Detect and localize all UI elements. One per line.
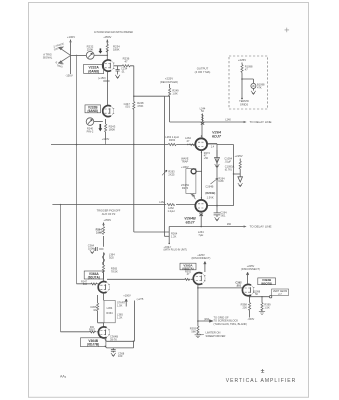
- svg-text:(6AN8): (6AN8): [88, 109, 98, 113]
- svg-text:1.5VK: 1.5VK: [207, 195, 214, 199]
- tube designator V393A (boxed): [180, 263, 196, 270]
- resistor column left of box: [98, 295, 104, 323]
- resistor on pickoff column: [102, 227, 104, 235]
- svg-text:(DISCONNECT): (DISCONNECT): [241, 267, 260, 271]
- node plug-in stub end: [168, 243, 170, 245]
- svg-text:2X25: 2X25: [168, 173, 175, 177]
- wire x=133.8 corner into y=232 row: [134, 231, 169, 233]
- svg-text:56K: 56K: [191, 329, 196, 333]
- node cathode/grid-row junction: [197, 287, 199, 289]
- svg-text:1K: 1K: [93, 308, 96, 312]
- wire V232A plate pin to coupling column: [114, 65, 134, 67]
- node x=217 junction: [216, 205, 218, 207]
- svg-text:47K: 47K: [257, 86, 262, 90]
- wire +225V(dcpl) column: [169, 84, 171, 122]
- resistor grid stopper V393A: [185, 279, 190, 281]
- svg-text:1.2µH: 1.2µH: [168, 209, 175, 213]
- tube V232A envelope (bold arc, open right): [103, 60, 111, 71]
- part symbol above title: [261, 369, 264, 372]
- svg-text:(+275: (+275: [137, 297, 144, 301]
- svg-text:.001: .001: [236, 283, 242, 287]
- wire left bus2 x=60.5 down: [60, 205, 62, 332]
- svg-text:-150V: -150V: [247, 317, 254, 321]
- wire V232A cathode down to triode: [107, 72, 109, 106]
- +100V arrow stub: [125, 299, 127, 307]
- wire pot R240 to cathode chain: [94, 121, 103, 123]
- svg-text:1.8K: 1.8K: [172, 91, 178, 95]
- tube designator V364B (boxed): [81, 338, 106, 347]
- node plate junction: [107, 55, 108, 56]
- node H2/left bus2 junction: [60, 204, 61, 205]
- resistor on stub: [261, 303, 263, 311]
- tube V264A pin ticks: [201, 135, 208, 153]
- svg-text:L240: L240: [225, 118, 231, 121]
- potentiometer R232 wiper arrow: [88, 53, 92, 57]
- svg-text:1.2K: 1.2K: [171, 234, 177, 238]
- svg-text:(DISCONNECT): (DISCONNECT): [192, 256, 211, 260]
- potentiometer R240 circle: [86, 118, 94, 126]
- tube V364A envelope (bold arc, open right): [98, 282, 106, 293]
- svg-text:(294: (294: [204, 318, 210, 321]
- svg-text:LIMITER ON: LIMITER ON: [206, 330, 221, 334]
- svg-text:1.5K: 1.5K: [264, 305, 270, 309]
- wire V264A plate pin (bold then thin): [207, 143, 217, 145]
- svg-text:.01µF: .01µF: [224, 160, 231, 164]
- cathode marks below V264B: [199, 214, 203, 216]
- svg-text:(0.7K): (0.7K): [225, 168, 232, 172]
- tube V264B envelope (bold circle): [195, 200, 207, 212]
- tube designator V232A (boxed): [84, 64, 104, 73]
- wire +225V column in dashed box: [241, 63, 243, 99]
- capacitor C364 stub (left): [93, 247, 103, 251]
- tube V264A envelope (bold circle): [195, 138, 207, 150]
- svg-text:.001: .001: [125, 105, 131, 109]
- wire trigger-pickoff plate column x=103.5: [103, 223, 105, 282]
- wire V393B cathode row y=296.7: [249, 296, 251, 318]
- svg-text:.01: .01: [121, 69, 125, 73]
- node H1/left-bus junction: [76, 144, 78, 146]
- wire jog H-mid end up to resistor: [164, 95, 169, 97]
- inductor L364 on column: [102, 253, 104, 266]
- wire V264B plate pin row: [207, 205, 233, 207]
- wire V364A-to-V393A coupling row y=279.3: [107, 278, 193, 280]
- node H-mid junction: [133, 96, 134, 97]
- svg-text:-150V: -150V: [65, 74, 73, 78]
- wire V364A cathode to network box: [103, 293, 105, 301]
- neon lamp B1098: [251, 83, 256, 88]
- svg-text:250K: 250K: [87, 47, 94, 51]
- wire main coupling bus x=133.8: [133, 66, 135, 232]
- capacitor stub x=262: [261, 297, 263, 312]
- svg-text:470K: 470K: [137, 104, 143, 108]
- wire cathode resistor column: [105, 119, 107, 140]
- adjust slash across cathode chain: [211, 178, 218, 184]
- wire cathode jog: [103, 80, 109, 82]
- wire H2 grid line y=204.6: [52, 204, 195, 206]
- ground under C264: [215, 217, 220, 221]
- ground left of C364: [90, 250, 95, 254]
- tube V264A grid dashes: [198, 142, 204, 146]
- terminal circle at geometry box: [269, 296, 271, 298]
- svg-text:100K: 100K: [88, 246, 94, 250]
- resistor R262 (horizontal on H2): [167, 204, 175, 206]
- node terminal dot bottom of box column: [241, 98, 243, 100]
- svg-text:SWEEP DRIVER: SWEEP DRIVER: [206, 334, 226, 338]
- svg-text:L364: L364: [107, 306, 113, 310]
- potentiometer R232 circle: [86, 51, 94, 59]
- geometry adj box: [272, 289, 289, 295]
- potentiometer R240 wiper arrow: [88, 119, 92, 123]
- resistor R236 (horizontal, plate out): [122, 65, 130, 67]
- svg-text:3Ω5: 3Ω5: [109, 255, 114, 259]
- tube designator V364A (boxed): [84, 271, 103, 279]
- beam-indicator bold arrow down: [99, 48, 101, 51]
- resistor R1098 in box: [241, 65, 243, 73]
- wire V393B grid row y=287.9: [198, 287, 243, 289]
- svg-text:1.5K: 1.5K: [117, 303, 123, 307]
- svg-text:(6DJ7A): (6DJ7A): [88, 275, 100, 279]
- ground under stub: [259, 312, 265, 315]
- node loop top-right: [133, 341, 135, 343]
- svg-text:+100V: +100V: [67, 35, 75, 39]
- wire x=164.4 bus (interstage divider): [163, 96, 165, 236]
- registration cross mark: [285, 28, 290, 33]
- wire right vertical x=233.5: [233, 145, 235, 206]
- resistor R398 on cathode: [249, 303, 251, 311]
- svg-text:(6BQ7B): (6BQ7B): [261, 281, 272, 285]
- wire V393A cathode bus down: [197, 284, 199, 334]
- wire H-mid to +225V dropper: [134, 95, 165, 97]
- node limiter junction: [197, 320, 199, 322]
- svg-text:AUX OF P2: AUX OF P2: [102, 212, 116, 216]
- tube V364B envelope (bold arc, open right): [98, 327, 106, 338]
- wire +100V tail into H1: [105, 140, 107, 144]
- arrowhead to delay line (lower): [244, 225, 247, 227]
- resistor R?? on +225V stub: [239, 161, 241, 169]
- svg-text:GRIDS: GRIDS: [240, 102, 248, 106]
- variable slash on x=164 bus: [162, 170, 167, 175]
- peaking coil L244 stub above row: [201, 114, 203, 122]
- resistor R393 cathode: [197, 326, 199, 334]
- svg-text:(WITH PLUG-IN UNIT): (WITH PLUG-IN UNIT): [164, 250, 188, 252]
- resistor R263 (horizontal on H1): [168, 143, 176, 145]
- svg-text:200: 200: [242, 305, 247, 309]
- tube V232B envelope (bold arc, open right): [103, 106, 111, 117]
- svg-text:(R264B): (R264B): [205, 191, 215, 195]
- svg-text:+350V: +350V: [104, 218, 112, 222]
- svg-text:TRAP: TRAP: [181, 160, 188, 164]
- capacitor C264 at pin junction: [214, 206, 221, 217]
- svg-text:ACTUATED WHEN GAIN SWITCH PRES: ACTUATED WHEN GAIN SWITCH PRESSED: [94, 30, 133, 34]
- svg-text:+100V: +100V: [123, 294, 131, 298]
- node plate row junction marks: [201, 122, 204, 124]
- svg-text:TO DELAY LINE: TO DELAY LINE: [250, 120, 272, 124]
- svg-text:900: 900: [83, 283, 88, 286]
- svg-text:R364: R364: [106, 311, 113, 315]
- tube V393A grid dashes: [196, 276, 202, 280]
- svg-text:SIGNAL: SIGNAL: [43, 55, 53, 59]
- tube designator V232B (boxed): [85, 105, 101, 113]
- ground under C1094: [215, 164, 220, 168]
- arrowhead to delay line (upper): [244, 121, 247, 123]
- svg-text:.001: .001: [220, 213, 226, 217]
- ground below C234: [115, 75, 120, 79]
- cathode network box: [104, 300, 115, 322]
- node H1/coupling bus junction: [133, 144, 134, 145]
- svg-text:100: 100: [118, 354, 123, 358]
- wire output loop rows: [105, 339, 134, 348]
- tube V393B envelope (bold arc, open right): [242, 284, 251, 295]
- tube V393A envelope (bold arc, open right): [193, 273, 202, 285]
- node tie junction: [233, 173, 234, 174]
- svg-text:TO DELAY LINE: TO DELAY LINE: [250, 225, 272, 229]
- svg-text:(4 OR 7 MA): (4 OR 7 MA): [195, 70, 211, 74]
- wave trap box: [186, 169, 196, 194]
- node in-box junction: [241, 78, 243, 80]
- svg-text:900: 900: [90, 326, 95, 329]
- svg-text:R263: R263: [169, 138, 176, 142]
- wire V364B grid entry from left bus2: [61, 331, 99, 333]
- wire +225V stub column: [239, 159, 241, 175]
- wire +350V plate feed: [106, 40, 108, 60]
- limiter callout squiggle: [200, 334, 204, 335]
- tube V364B grid dashes: [100, 330, 106, 334]
- tube V393B grid dashes: [245, 288, 251, 292]
- svg-text:PIN-2: PIN-2: [87, 129, 94, 133]
- resistor R265 (wave box to tube): [191, 194, 196, 200]
- svg-text:(6DJ7B): (6DJ7B): [87, 343, 99, 347]
- tube V232A grid dashes: [105, 64, 111, 68]
- svg-text:+50: +50: [204, 157, 209, 160]
- resistor grid stopper V364A: [91, 283, 98, 285]
- wire plate riser into V264A: [201, 122, 203, 138]
- resistor R243 (cathode): [105, 124, 107, 132]
- svg-text:C264B: C264B: [205, 184, 213, 188]
- wire input arrow upper (A TRIG): [59, 47, 70, 55]
- wire interstage vertical x=217: [216, 144, 218, 206]
- wire right feed x=134.6 down to output loop: [134, 301, 136, 342]
- wire V364B plate riser: [103, 323, 105, 327]
- svg-text:(THRU GAIN, TRIG, BLANK): (THRU GAIN, TRIG, BLANK): [214, 322, 248, 326]
- tube V232B grid dashes: [104, 109, 110, 113]
- svg-text:6.8K: 6.8K: [218, 179, 224, 183]
- wire jog to x=169.2: [164, 235, 169, 237]
- node grid junction: [76, 55, 77, 56]
- potentiometer wave-trap (bold small circle): [191, 169, 196, 174]
- wire +225V disconnect stub V393A: [204, 262, 206, 273]
- wire +100V feed vertical: [70, 40, 72, 75]
- resistor R234 (plate load): [106, 44, 108, 52]
- wire to geometry box: [250, 296, 270, 298]
- svg-text:L262: L262: [159, 201, 165, 204]
- tube pin ticks (small stubs): [108, 63, 254, 335]
- wire pot to plate column: [94, 54, 107, 56]
- capacitor C234 stub: [116, 66, 120, 75]
- svg-text:6DJ7: 6DJ7: [212, 135, 222, 139]
- ground V393A cathode: [195, 335, 202, 338]
- wire V364A grid entry: [77, 283, 99, 285]
- svg-text:180K: 180K: [109, 128, 116, 132]
- svg-text:78.5K: 78.5K: [111, 269, 118, 273]
- svg-text:260: 260: [227, 223, 232, 226]
- resistor grid stopper at tube: [189, 144, 195, 146]
- capacitor C368 below loop: [111, 348, 116, 353]
- node cathode/H3 junction: [200, 226, 202, 228]
- svg-text:7µH: 7µH: [198, 233, 203, 237]
- svg-text:1.2K: 1.2K: [117, 315, 123, 319]
- svg-text:47: 47: [124, 60, 128, 64]
- wire cathode link V264A to V264B: [201, 150, 203, 200]
- capacitor C1093 triangle + ground stub: [239, 174, 241, 177]
- svg-text:+ONLY: +ONLY: [164, 246, 172, 249]
- wire H y=174 tie: [234, 173, 241, 175]
- wire V264B cathode to H3: [200, 212, 202, 227]
- svg-text:(6AN8): (6AN8): [88, 70, 99, 74]
- wire branch to neon: [242, 79, 253, 83]
- svg-text:AA3: AA3: [60, 375, 67, 380]
- supply arrowheads: [70, 40, 109, 225]
- wire limiter output arrow: [198, 320, 213, 322]
- tube V364A grid dashes: [100, 285, 106, 289]
- wire x=169.2 stub: [168, 227, 170, 244]
- svg-text:3.9M: 3.9M: [96, 231, 102, 235]
- wire input arrow lower (B TRIG): [59, 56, 70, 63]
- svg-text:R367: R367: [89, 328, 96, 331]
- resistor grid stopper V364B: [89, 331, 96, 333]
- resistor R365 on column: [102, 265, 104, 273]
- wire long left bus x=76.5 down to V364A grid: [76, 55, 78, 283]
- tube V264B pin ticks: [200, 197, 202, 215]
- svg-text:180K: 180K: [113, 47, 120, 51]
- node grid dot: [187, 144, 188, 145]
- wire H1 grid line y=144.5: [51, 144, 195, 146]
- dashed interconnect box (CRT circuit): [229, 56, 268, 109]
- ground under neon: [252, 88, 254, 90]
- svg-text:(+150): (+150): [98, 76, 106, 80]
- svg-text:+100V: +100V: [102, 137, 110, 141]
- wire +225V disconnect stub V393B: [247, 272, 249, 283]
- node stub junction: [261, 296, 262, 297]
- wire grid feed horizontal to pot R232: [71, 54, 87, 56]
- wire H3 lower delay-line row y=226.5: [169, 226, 244, 228]
- svg-text:39-7K: 39-7K: [110, 337, 117, 341]
- svg-text:6DJ7: 6DJ7: [185, 221, 195, 225]
- ground under C368: [111, 353, 116, 357]
- tube plate bars inside envelopes: [106, 63, 251, 335]
- svg-text:(DECOUPLED): (DECOUPLED): [160, 80, 178, 84]
- resistor R249 on +225V column: [169, 88, 171, 96]
- wave trap tap: [196, 170, 201, 172]
- node cathode row junction: [249, 296, 251, 298]
- wire upper delay-line row y=122: [170, 121, 244, 123]
- svg-text:VERTICAL AMPLIFIER: VERTICAL AMPLIFIER: [226, 378, 297, 384]
- tube V264B grid dashes: [198, 204, 204, 208]
- svg-text:+350V: +350V: [103, 35, 111, 39]
- resistor R247 (series, in line): [133, 102, 135, 110]
- tube designator V393B (boxed): [258, 278, 276, 285]
- svg-text:R274: R274: [182, 186, 189, 190]
- beam-indicator bold arrow down 2: [99, 124, 101, 129]
- svg-text:+225V: +225V: [238, 58, 246, 62]
- svg-text:+100V: +100V: [181, 165, 189, 169]
- svg-text:+225V: +225V: [235, 154, 243, 158]
- capacitor C1094 stub w/ adj triangle: [216, 150, 218, 157]
